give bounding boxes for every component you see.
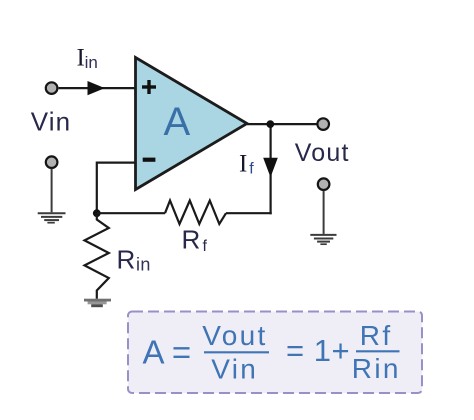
svg-text:Vout: Vout: [295, 139, 350, 167]
formula box frame: [128, 312, 422, 394]
svg-text:I: I: [239, 151, 247, 178]
svg-text:Rf: Rf: [360, 320, 393, 351]
formula fraction bar Rf/Rin: [356, 350, 400, 352]
svg-text:R: R: [117, 244, 136, 274]
wire: junction to Rf left lead: [97, 212, 165, 214]
svg-text:Vin: Vin: [31, 107, 71, 137]
wire: input terminal to op-amp non-inverting input: [59, 87, 135, 89]
resistor Rin: [85, 215, 109, 299]
svg-text:A =: A =: [143, 334, 192, 371]
svg-text:in: in: [85, 53, 98, 72]
resistor Rf: [165, 201, 226, 225]
formula fraction bar Vout/Vin: [204, 351, 269, 353]
svg-text:Rin: Rin: [352, 353, 401, 384]
wire: inverting input to feedback node: [97, 163, 135, 214]
ground (earth) below Vout: [310, 191, 336, 245]
terminal: ground post below Vin: [46, 156, 58, 168]
op-amp non-inverting pin mark +: [142, 80, 156, 94]
node: feedback junction dot: [93, 209, 101, 217]
terminal: ground post below Vout: [318, 178, 330, 190]
ground (signal, filled bars) below Rin: [84, 299, 111, 307]
output terminal Vout: [317, 118, 329, 130]
wire: op-amp output to Vout terminal: [247, 123, 317, 125]
svg-text:f: f: [249, 160, 254, 177]
svg-text:A: A: [164, 100, 191, 144]
input terminal Vin: [46, 82, 58, 94]
current arrow Iin: [88, 81, 105, 95]
op-amp U1 (gain A): [136, 58, 248, 190]
ground (earth) below Vin: [38, 169, 66, 223]
svg-text:f: f: [203, 238, 208, 255]
svg-text:I: I: [77, 44, 85, 71]
node: output junction dot: [266, 120, 274, 128]
svg-text:Vin: Vin: [211, 353, 258, 384]
wire: feedback drop from output node: [270, 124, 272, 214]
current arrow If: [263, 158, 278, 177]
svg-text:in: in: [136, 255, 151, 275]
svg-text:= 1+: = 1+: [286, 333, 350, 368]
op-amp inverting pin mark -: [143, 158, 156, 162]
svg-text:Vout: Vout: [202, 320, 267, 351]
svg-text:R: R: [182, 225, 201, 255]
wire: Rf right lead to output branch: [226, 212, 272, 214]
